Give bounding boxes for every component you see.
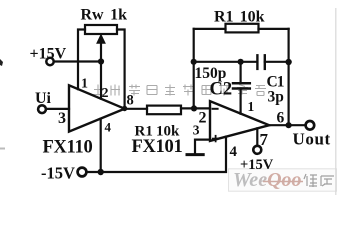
svg-text:Ui: Ui: [35, 90, 52, 107]
wiper arrow of Rw: [97, 35, 105, 44]
wire R1 top left lead: [194, 28, 226, 30]
svg-text:1: 1: [81, 77, 88, 92]
wire Ui to pin3: [46, 108, 69, 110]
ground bar: [187, 153, 203, 156]
node feedback/pin2 junction: [191, 105, 197, 111]
watermark strike line: [263, 181, 303, 183]
wire R1 top right lead: [259, 28, 289, 30]
node U1 output: [122, 106, 127, 111]
pin3 non-inverting mark: [213, 136, 219, 142]
wire C2 bottom lead to U2 pin1: [240, 89, 242, 114]
terminal Ui input: [38, 105, 46, 113]
svg-text:Uout: Uout: [293, 130, 331, 149]
terminal +15V left: [46, 58, 53, 65]
wire C2 top lead: [240, 62, 242, 83]
svg-text:C2: C2: [210, 80, 233, 100]
resistor R1 10k middle body: [147, 106, 181, 115]
node wiper/+15V junction: [98, 58, 104, 64]
potentiometer Rw body: [85, 25, 117, 34]
wire wiper shaft to pin2: [100, 42, 102, 99]
resistor R1 10k top body: [226, 24, 259, 33]
svg-text:2: 2: [102, 86, 109, 101]
wire right feedback vertical: [288, 29, 290, 125]
svg-text:FX110: FX110: [43, 138, 93, 158]
capacitor C2 plates: [233, 83, 250, 88]
wire Rw right lead to output node: [117, 30, 125, 108]
node pin4 rail junction: [98, 169, 104, 175]
op-amp U2 FX101 triangle: [210, 101, 269, 141]
wire pin4 to negative rail: [100, 119, 102, 172]
svg-text:8: 8: [127, 93, 134, 109]
capacitor C1 plates: [257, 55, 264, 69]
wire left feedback vertical: [193, 29, 195, 109]
watermark logo box: [229, 169, 337, 191]
node U2 output junction: [286, 122, 292, 128]
svg-text:6: 6: [277, 110, 285, 127]
terminal Uout: [306, 121, 315, 130]
node 150p wire left junction: [191, 59, 197, 65]
wire U1 output to R1: [125, 108, 147, 110]
wire -15V rail to U2 pin4: [87, 137, 226, 172]
node C2 top junction: [238, 59, 244, 65]
scan artifact left gray dash: [0, 148, 5, 150]
svg-text:-15V: -15V: [41, 164, 75, 183]
svg-text:4: 4: [105, 120, 112, 135]
svg-text:+15V: +15V: [240, 157, 274, 173]
svg-text:2: 2: [199, 110, 207, 127]
svg-text:FX101: FX101: [132, 137, 183, 157]
op-amp U1 FX110 triangle: [69, 85, 125, 131]
watermark 维库 glyphs: [304, 174, 334, 187]
svg-text:4: 4: [230, 144, 238, 160]
wire U2 output: [269, 124, 305, 126]
wire Rw left lead to pin1: [78, 30, 85, 90]
wire C1 to right vertical: [265, 61, 289, 63]
svg-text:7: 7: [260, 130, 269, 149]
wire +15V to wiper node: [54, 60, 101, 62]
svg-text:3p: 3p: [268, 89, 284, 106]
terminal -15V: [78, 168, 87, 177]
watermark text row (site watermark): [93, 85, 266, 96]
wire R1 to U2 pin2: [181, 107, 210, 109]
svg-text:3: 3: [58, 110, 66, 127]
node C1 right junction: [285, 59, 291, 65]
svg-text:1: 1: [248, 99, 255, 114]
scan artifact right faint vertical line: [335, 8, 336, 195]
wire U2 pin7: [256, 128, 258, 145]
scan artifact left edge dark dash: [0, 59, 3, 66]
terminal +15V bottom: [253, 146, 261, 154]
wire U2 pin3 to ground: [195, 140, 210, 154]
svg-text:+15V: +15V: [30, 46, 67, 63]
pin2 inverting mark: [213, 108, 218, 110]
svg-text:Rw1k: Rw1k: [81, 7, 128, 24]
svg-text:R110k: R110k: [214, 9, 265, 26]
wire 150p node to C1: [194, 61, 258, 63]
svg-text:3: 3: [193, 123, 200, 138]
